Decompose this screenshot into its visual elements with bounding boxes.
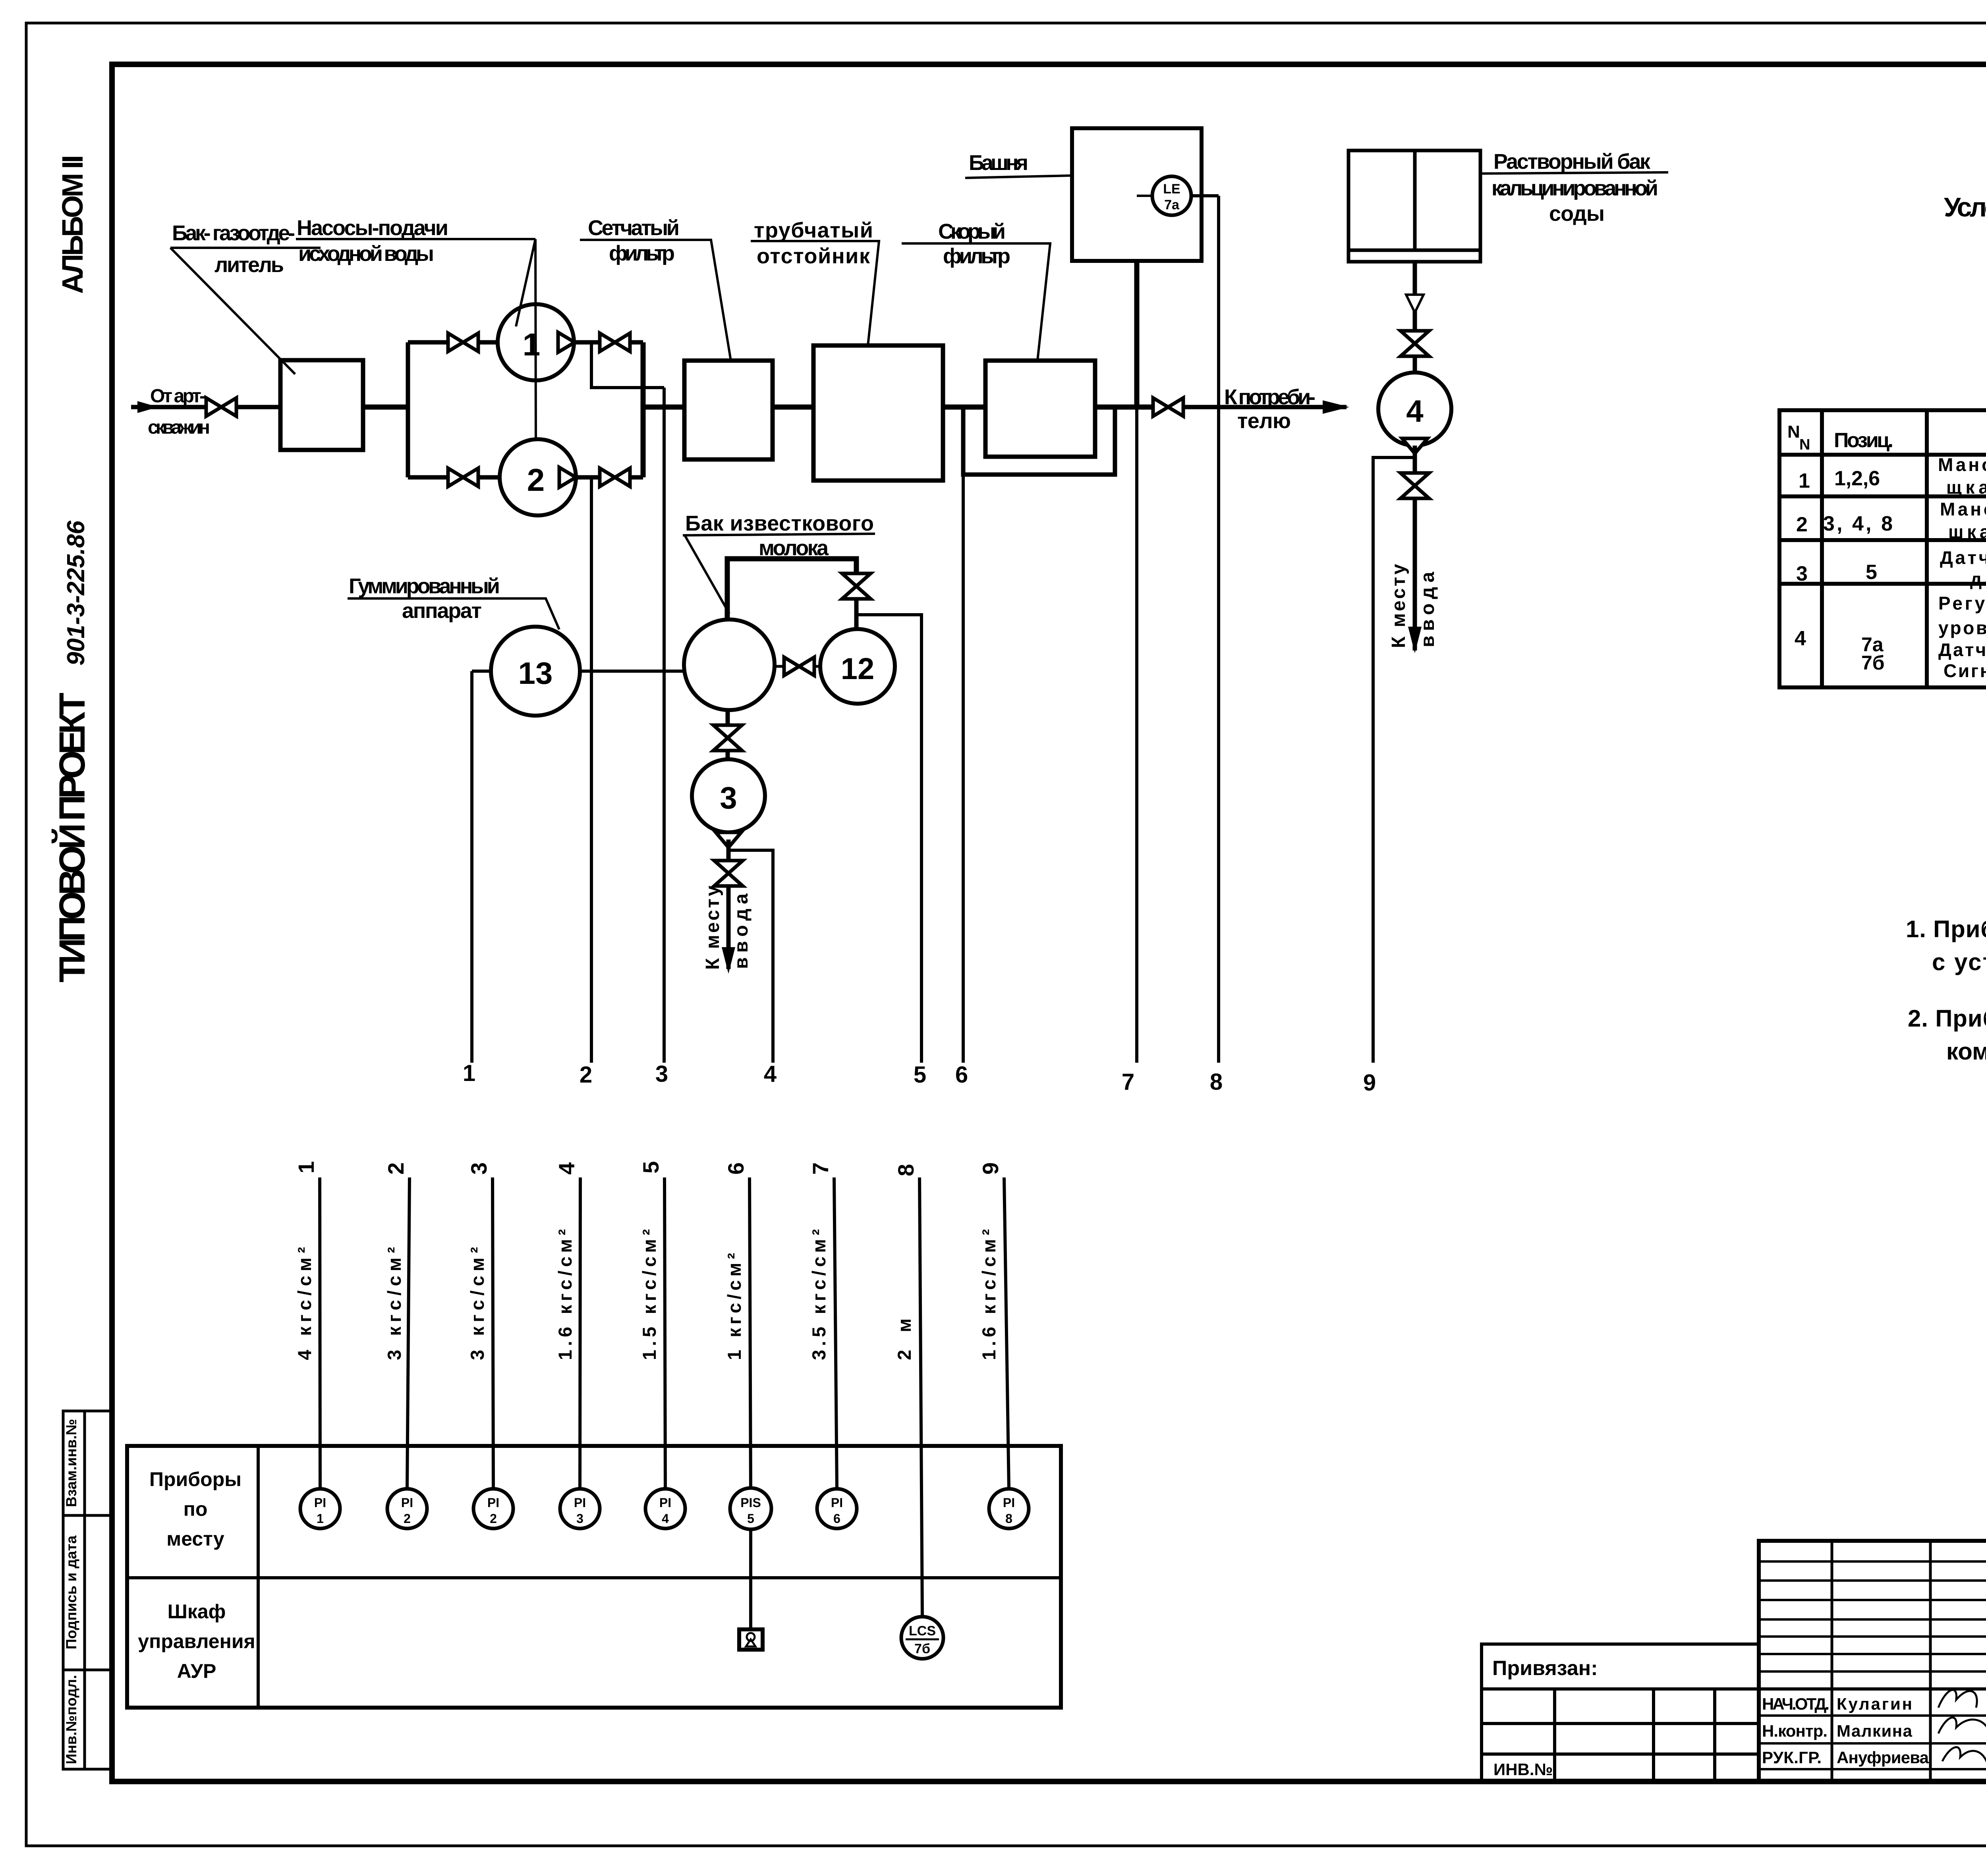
svg-text:PIS: PIS xyxy=(740,1496,761,1510)
wire LE leader xyxy=(1137,195,1153,197)
svg-text:Регулятор-сигнализатор: Регулятор-сигнализатор xyxy=(1938,593,1986,614)
svg-text:2: 2 xyxy=(404,1511,411,1526)
wire settler to fast filter xyxy=(943,405,985,410)
svg-text:5: 5 xyxy=(914,1062,926,1088)
svg-text:4 кгс/см²: 4 кгс/см² xyxy=(294,1247,315,1360)
svg-text:1: 1 xyxy=(294,1161,319,1173)
svg-text:2: 2 xyxy=(1796,513,1808,536)
valve pump2 discharge xyxy=(600,468,630,486)
pump2 check triangle xyxy=(559,467,576,487)
valve lime dosing lower xyxy=(714,861,743,886)
label Приборы по месту xyxy=(149,1468,241,1550)
svg-text:LE: LE xyxy=(1163,181,1180,197)
label Сетчатый фильтр xyxy=(580,216,731,361)
svg-text:N: N xyxy=(1787,422,1800,442)
svg-text:месту: месту xyxy=(166,1528,224,1550)
svg-text:4: 4 xyxy=(554,1162,579,1175)
svg-text:4: 4 xyxy=(662,1511,669,1526)
wire branch to signal line 9 xyxy=(1373,457,1415,1063)
svg-text:7: 7 xyxy=(1122,1069,1134,1095)
svg-text:5: 5 xyxy=(1866,561,1877,584)
svg-text:LCS: LCS xyxy=(909,1623,936,1639)
wire circle4 down xyxy=(1413,446,1417,650)
svg-text:2: 2 xyxy=(527,462,545,498)
svg-text:2 м: 2 м xyxy=(894,1318,915,1360)
svg-text:1 кгс/см²: 1 кгс/см² xyxy=(724,1253,745,1360)
svg-text:901-3-225.86: 901-3-225.86 xyxy=(62,520,90,666)
wire main line to outlet valve xyxy=(1095,405,1153,410)
wire strainer to settler xyxy=(773,405,813,410)
svg-text:PI: PI xyxy=(659,1496,671,1510)
wire main line to strainer xyxy=(643,405,684,410)
svg-text:PI: PI xyxy=(401,1496,413,1510)
wire valve to dosing pump 12 xyxy=(854,599,859,629)
svg-text:13: 13 xyxy=(518,656,553,691)
svg-text:PI: PI xyxy=(574,1496,586,1510)
svg-text:фильтр: фильтр xyxy=(609,241,675,265)
rubberized apparatus circle 13 xyxy=(491,627,580,716)
svg-text:Бак- газоотде-: Бак- газоотде- xyxy=(172,221,295,245)
instrument LCS 7b xyxy=(901,1617,943,1659)
valve lime tank bottom xyxy=(713,725,742,751)
table row 1 xyxy=(1799,454,1986,498)
svg-text:Бак известкового: Бак известкового xyxy=(685,511,874,535)
wire manifold left header xyxy=(406,342,410,477)
svg-text:3 кгс/см²: 3 кгс/см² xyxy=(384,1247,405,1360)
instrument PI2 xyxy=(387,1489,427,1529)
wire tower to main line xyxy=(1134,261,1140,407)
fast filter box xyxy=(985,361,1095,457)
svg-text:2: 2 xyxy=(383,1162,408,1175)
legend table grid xyxy=(1779,410,1986,687)
instrument PI2b xyxy=(473,1489,513,1529)
svg-text:9: 9 xyxy=(978,1162,1003,1175)
wire lime tank top feed xyxy=(727,559,856,620)
valve pump2 suction xyxy=(448,468,478,486)
svg-text:АУР: АУР xyxy=(177,1660,216,1682)
svg-text:Подпись и дата: Подпись и дата xyxy=(63,1535,79,1649)
svg-text:АЛЬБОМ II: АЛЬБОМ II xyxy=(56,155,89,294)
lower line numbers rotated xyxy=(294,1161,1003,1176)
svg-text:PI: PI xyxy=(487,1496,499,1510)
svg-text:3: 3 xyxy=(655,1061,668,1087)
title block outer xyxy=(1759,1541,1986,1781)
label Бак известкового молока xyxy=(683,511,875,614)
tank degasser (бак-газоотделитель) xyxy=(280,360,363,450)
svg-text:1,2,6: 1,2,6 xyxy=(1834,467,1880,490)
svg-text:РУК.ГР.: РУК.ГР. xyxy=(1762,1748,1822,1767)
title block left grid verticals xyxy=(1832,1541,1986,1781)
svg-text:4: 4 xyxy=(764,1061,777,1087)
svg-text:Гуммированный: Гуммированный xyxy=(349,574,500,598)
wire signal line 7 xyxy=(1135,407,1138,1063)
svg-text:Инв.№подл.: Инв.№подл. xyxy=(63,1675,79,1764)
wire pump2 discharge branch xyxy=(576,475,643,480)
tube settler box xyxy=(813,345,943,481)
instrument LE 7a xyxy=(1152,176,1191,215)
svg-text:шкала 0-2.5 кгс/см²: шкала 0-2.5 кгс/см² xyxy=(1948,521,1986,542)
table row 3 xyxy=(1796,547,1986,589)
soda solution tank xyxy=(1348,151,1480,262)
wire fast filter bypass xyxy=(963,407,1115,475)
valve pump1 suction xyxy=(448,333,478,351)
valve pump1 discharge xyxy=(600,333,630,351)
svg-text:3: 3 xyxy=(720,780,737,815)
svg-text:Башня: Башня xyxy=(969,151,1028,175)
svg-text:6: 6 xyxy=(723,1162,748,1175)
svg-text:7б: 7б xyxy=(1861,652,1885,674)
svg-text:5: 5 xyxy=(747,1511,754,1526)
wire branch to signal line 4 xyxy=(728,850,773,1063)
label трубчатый отстойник xyxy=(751,218,879,345)
svg-text:телю: телю xyxy=(1237,409,1291,433)
label Растворный бак кальцинированной соды xyxy=(1480,150,1668,226)
svg-text:1. Прибор поз. 6 поставляет: 1. Прибор поз. 6 поставляется комплектно xyxy=(1906,916,1986,942)
svg-text:Растворный бак: Растворный бак xyxy=(1493,150,1651,174)
svg-text:Ануфриева: Ануфриева xyxy=(1837,1748,1929,1767)
label Скорый фильтр xyxy=(902,220,1050,361)
label Бак-газоотделитель xyxy=(170,221,321,374)
valve lime feed xyxy=(842,573,871,599)
svg-text:отстойник: отстойник xyxy=(757,244,870,268)
pump3 bottom triangle xyxy=(716,832,741,847)
inlet arrow from artesian wells xyxy=(131,405,208,409)
svg-text:7а: 7а xyxy=(1164,197,1180,212)
svg-text:Датчик-реле разности: Датчик-реле разности xyxy=(1940,547,1986,568)
svg-text:8: 8 xyxy=(893,1164,918,1176)
svg-text:трубчатый: трубчатый xyxy=(754,218,873,242)
strainer filter box xyxy=(684,361,773,459)
signatures xyxy=(1938,1690,1986,1765)
wire LE to signal line 8 xyxy=(1191,194,1219,197)
svg-text:скважин: скважин xyxy=(148,417,210,438)
svg-text:7: 7 xyxy=(808,1162,833,1175)
svg-text:ИНВ.№: ИНВ.№ xyxy=(1493,1760,1553,1779)
svg-text:Сетчатый: Сетчатый xyxy=(588,216,680,240)
wire degasser to pump manifold xyxy=(363,405,408,410)
svg-text:4: 4 xyxy=(1795,627,1806,650)
wire pump1 discharge branch xyxy=(574,340,643,345)
wire pump3 down xyxy=(726,840,731,969)
lime milk tank circle xyxy=(684,620,775,710)
alarm bell device xyxy=(739,1629,763,1650)
dosing pump 12 suction triangle xyxy=(844,629,869,642)
arrow к месту ввода (right) xyxy=(1408,627,1422,653)
svg-text:1: 1 xyxy=(463,1060,475,1086)
svg-text:НАЧ.ОТД.: НАЧ.ОТД. xyxy=(1762,1695,1830,1713)
wire circle13 left lead xyxy=(472,670,491,673)
dosing pump circle 12 xyxy=(820,629,895,704)
svg-text:ТИПОВОЙ ПРОЕКТ: ТИПОВОЙ ПРОЕКТ xyxy=(51,693,93,982)
svg-text:Манометр технический,: Манометр технический, xyxy=(1938,454,1986,475)
wire pump1 suction branch xyxy=(408,340,498,345)
pump1 check triangle xyxy=(558,332,575,352)
arrow к месту ввода (left) xyxy=(722,947,735,974)
svg-text:Датчики l= 0.6м: Датчики l= 0.6м xyxy=(1938,639,1986,660)
svg-text:8: 8 xyxy=(1005,1511,1012,1526)
instrument PI6 xyxy=(817,1489,857,1529)
svg-text:кальцинированной: кальцинированной xyxy=(1491,176,1658,200)
svg-text:Насосы-подачи: Насосы-подачи xyxy=(297,216,448,240)
circle4 bottom triangle xyxy=(1402,438,1428,454)
svg-text:12: 12 xyxy=(841,652,875,686)
svg-text:управления: управления xyxy=(138,1630,255,1652)
svg-text:От арт-: От арт- xyxy=(150,386,206,407)
svg-text:Н.контр.: Н.контр. xyxy=(1762,1722,1828,1740)
pump 1 xyxy=(498,304,574,380)
svg-text:PI: PI xyxy=(831,1496,843,1510)
svg-text:Шкаф: Шкаф xyxy=(168,1600,226,1623)
svg-text:комплектно с устройством А: комплектно с устройством АУР. xyxy=(1946,1038,1986,1065)
svg-text:N: N xyxy=(1799,436,1810,453)
привязан box xyxy=(1482,1644,1759,1781)
svg-text:Сигнальный блок.: Сигнальный блок. xyxy=(1943,660,1986,681)
lower signal lines 1-9 xyxy=(320,1177,1009,1617)
valve inlet xyxy=(206,398,236,416)
valve dosing lower xyxy=(1401,473,1429,498)
svg-text:фильтр: фильтр xyxy=(943,244,1010,268)
svg-text:аппарат: аппарат xyxy=(402,599,482,623)
svg-text:3, 4, 8: 3, 4, 8 xyxy=(1823,512,1893,535)
svg-text:8: 8 xyxy=(1210,1069,1223,1095)
mixer circle 4 xyxy=(1378,372,1451,446)
svg-text:6: 6 xyxy=(955,1062,968,1088)
svg-text:2: 2 xyxy=(490,1511,497,1526)
tower box (Башня) xyxy=(1072,128,1202,261)
wire pump2 suction branch xyxy=(408,475,500,480)
svg-text:Взам.инв.№: Взам.инв.№ xyxy=(63,1419,79,1507)
svg-text:PI: PI xyxy=(1003,1496,1015,1510)
svg-text:3: 3 xyxy=(1796,562,1808,585)
svg-text:по: по xyxy=(184,1498,208,1520)
signal line numbers upper xyxy=(463,1060,1376,1096)
instrument PIS5 xyxy=(730,1488,771,1529)
instrument panel box xyxy=(127,1446,1061,1708)
svg-text:Позиц.: Позиц. xyxy=(1834,429,1893,452)
wire circle13 to lime tank xyxy=(580,670,685,673)
wire inlet valve to degasser xyxy=(236,405,280,409)
title roles and names xyxy=(1762,1695,1929,1767)
svg-text:Манометр технический: Манометр технический xyxy=(1940,499,1986,519)
label Гуммированный аппарат xyxy=(348,574,559,629)
title block left grid horizontals xyxy=(1759,1561,1986,1769)
instrument PI1 xyxy=(300,1489,340,1529)
wire manifold right header xyxy=(641,342,646,477)
svg-text:PI: PI xyxy=(314,1496,326,1510)
wire signal line 6 xyxy=(962,475,965,1063)
svg-text:Скорый: Скорый xyxy=(938,220,1006,243)
svg-text:щкала 0÷4 кгс/см²: щкала 0÷4 кгс/см² xyxy=(1946,477,1986,498)
svg-text:Малкина: Малкина xyxy=(1837,1722,1913,1740)
node tap pump discharge top xyxy=(591,342,664,388)
notes text xyxy=(1906,916,1986,1065)
svg-text:2: 2 xyxy=(580,1062,592,1088)
instrument PI8 xyxy=(989,1489,1029,1529)
svg-text:соды: соды xyxy=(1549,202,1605,226)
wire arrow to consumer xyxy=(1183,405,1347,409)
sidebar stamp boxes xyxy=(63,1411,111,1769)
pump 2 xyxy=(500,439,576,515)
label Шкаф управления АУР xyxy=(138,1600,255,1682)
svg-text:3 кгс/см²: 3 кгс/см² xyxy=(467,1247,488,1360)
wire lime tank bottom xyxy=(726,710,730,759)
svg-text:2. Приборы поз. 5 и поз. 7: 2. Приборы поз. 5 и поз. 7 поставляются xyxy=(1908,1005,1986,1032)
svg-text:Приборы: Приборы xyxy=(149,1468,241,1490)
svg-text:с установкой „Струя".: с установкой „Струя". xyxy=(1932,949,1986,975)
panel divider vertical xyxy=(257,1446,260,1708)
valve soda feed xyxy=(1401,331,1429,356)
wire signal line 2 xyxy=(590,477,593,1063)
svg-text:литель: литель xyxy=(214,253,284,277)
svg-text:1: 1 xyxy=(523,327,541,362)
svg-text:3: 3 xyxy=(466,1162,491,1175)
instrument PI3 xyxy=(560,1489,600,1529)
valve lime tank to pump12 xyxy=(784,657,814,676)
svg-text:1: 1 xyxy=(317,1511,324,1526)
svg-text:Условные обозначения приборо: Условные обозначения приборов xyxy=(1944,192,1986,222)
panel divider horizontal xyxy=(127,1576,1061,1579)
table row 4 xyxy=(1795,593,1986,681)
svg-text:7б: 7б xyxy=(914,1641,930,1656)
table row 2 xyxy=(1796,499,1986,542)
svg-text:5: 5 xyxy=(638,1161,663,1173)
wire PIS5 to alarm device xyxy=(749,1529,752,1629)
instrument PI4 xyxy=(645,1489,685,1529)
wire soda tank down xyxy=(1413,262,1417,372)
dosing pump circle 3 xyxy=(692,759,765,832)
valve outlet to consumer xyxy=(1153,398,1183,416)
wire signal line 8 xyxy=(1217,196,1220,1063)
pressure setpoint labels rotated xyxy=(294,1229,999,1360)
svg-text:6: 6 xyxy=(833,1511,840,1526)
svg-text:К потреби-: К потреби- xyxy=(1224,385,1316,409)
svg-text:9: 9 xyxy=(1363,1070,1376,1096)
label Башня xyxy=(965,151,1072,178)
svg-text:исходной воды: исходной воды xyxy=(298,242,434,266)
svg-text:Привязан:: Привязан: xyxy=(1492,1657,1598,1680)
wire branch to signal line 5 xyxy=(856,615,922,1063)
wire signal line 3 xyxy=(663,388,666,1063)
label Насосы-подачи исходной воды xyxy=(296,216,536,439)
svg-text:1: 1 xyxy=(1799,469,1810,492)
wire signal line 1 xyxy=(470,671,473,1063)
svg-text:3: 3 xyxy=(576,1511,583,1526)
svg-text:4: 4 xyxy=(1406,394,1423,428)
table header texts xyxy=(1787,422,1986,461)
